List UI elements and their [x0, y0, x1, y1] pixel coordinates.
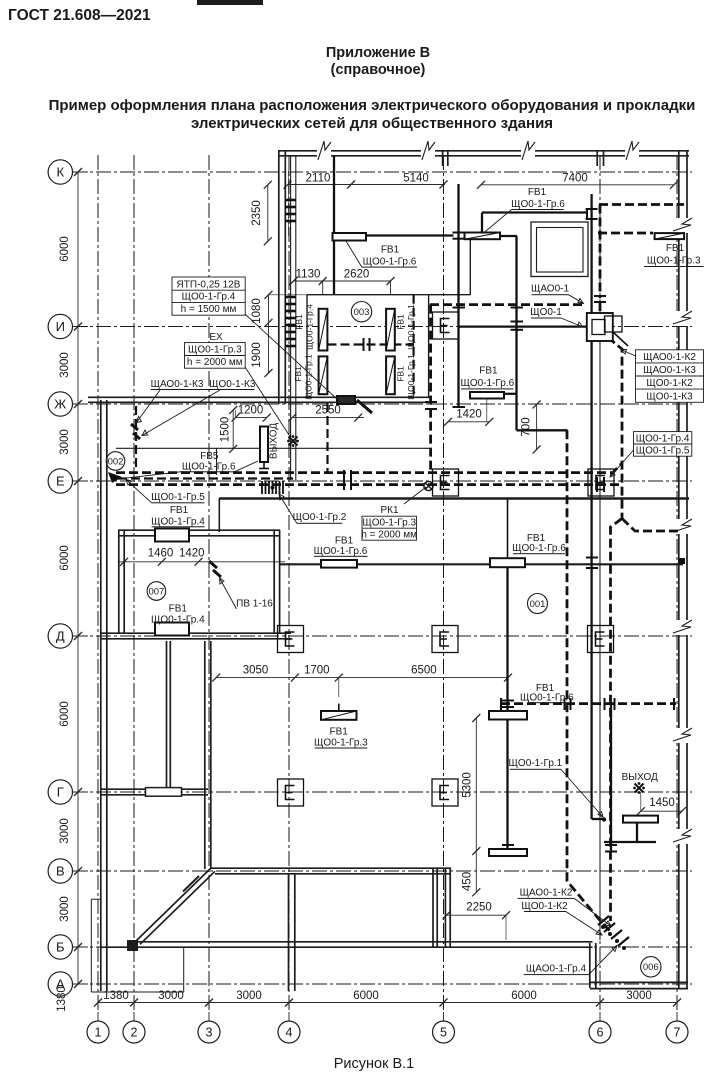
column Д/5 [432, 626, 458, 653]
svg-text:1130: 1130 [296, 269, 321, 281]
ЩО0-1 switchboard cluster [587, 313, 628, 346]
leader ЩО0-1 [561, 318, 583, 327]
bottom dimension line [98, 1002, 677, 1004]
svg-text:1080: 1080 [251, 298, 263, 324]
upper-left vertical wall (double) [278, 150, 280, 404]
svg-text:002: 002 [108, 456, 124, 467]
svg-text:Б: Б [56, 940, 65, 955]
svg-text:FB1: FB1 [396, 366, 406, 382]
leader ЩАО0-1-К3 [137, 390, 161, 423]
svg-text:3050: 3050 [243, 665, 269, 677]
leader FB1 left [346, 241, 362, 267]
svg-text:Пример оформления плана распол: Пример оформления плана расположения эле… [49, 97, 696, 114]
dim 2350 vertical [267, 185, 269, 242]
svg-text:ЯТП-0,25 12В: ЯТП-0,25 12В [177, 279, 241, 290]
bus vertical x=334 [333, 156, 335, 294]
break symbols on top wall [317, 141, 693, 844]
dashed x=567 with diagonal to corner [567, 430, 612, 933]
svg-text:1420: 1420 [179, 548, 205, 560]
room 003 walls [307, 294, 470, 296]
leader FB1 top [485, 210, 512, 233]
leader К2 box [621, 350, 636, 357]
luminaire B2 [465, 233, 501, 240]
svg-text:1500: 1500 [220, 417, 232, 443]
svg-text:001: 001 [530, 599, 546, 610]
axis col 6 [599, 155, 601, 1012]
stair shaft wall a [166, 641, 168, 792]
luminaire B6 [470, 392, 504, 399]
bus y=326.6 [458, 325, 588, 327]
svg-text:ЩО0-1-Гр.1: ЩО0-1-Гр.1 [406, 354, 416, 400]
svg-text:ЩО0-1-Гр.1: ЩО0-1-Гр.1 [303, 354, 313, 400]
svg-text:ГОСТ 21.608—2021: ГОСТ 21.608—2021 [8, 7, 151, 24]
leader ЩО0-1-Гр.1 [561, 770, 603, 818]
svg-text:6: 6 [597, 1026, 604, 1040]
svg-text:700: 700 [521, 417, 533, 436]
room 007 right wall [273, 530, 275, 633]
svg-text:ЩАО0-1: ЩАО0-1 [531, 284, 569, 295]
door rect D3 (dark) [337, 396, 355, 404]
axis row И [72, 326, 692, 328]
svg-text:6000: 6000 [59, 701, 71, 727]
leader ЩАО0-1 [569, 295, 584, 304]
svg-text:6000: 6000 [59, 236, 71, 262]
boxed labels К2/К3 [636, 350, 704, 403]
bus horizontal y=236.5 [334, 234, 454, 236]
leader ЩАО0-1-К2 bottom [575, 899, 612, 926]
svg-text:И: И [56, 319, 65, 334]
svg-text:ЩАО0-1-Гр.4: ЩАО0-1-Гр.4 [526, 964, 587, 975]
left exterior wall (double) [100, 400, 102, 991]
svg-text:6000: 6000 [59, 545, 71, 571]
leader ЕХ box [245, 367, 291, 438]
svg-text:ЩО0-1-Гр.4: ЩО0-1-Гр.4 [151, 614, 205, 625]
room 007 top wall [118, 529, 280, 531]
svg-text:h = 2000 мм: h = 2000 мм [361, 530, 417, 541]
corner junction cluster bottom-right [598, 916, 629, 946]
axis row Е [72, 480, 692, 482]
svg-text:FB1: FB1 [479, 366, 498, 377]
bus x=515 [515, 236, 517, 430]
svg-text:К: К [57, 165, 65, 180]
interior line y=566 [280, 563, 683, 565]
bus x=458 [457, 184, 459, 407]
svg-text:7400: 7400 [562, 173, 588, 185]
svg-text:электрических сетей для общест: электрических сетей для общественного зд… [191, 115, 553, 132]
svg-text:ЩО0-1-Гр.5: ЩО0-1-Гр.5 [636, 446, 690, 457]
svg-text:ЩО0-1-Гр.5: ЩО0-1-Гр.5 [151, 492, 205, 503]
svg-text:FB1: FB1 [335, 536, 354, 547]
svg-text:1420: 1420 [456, 409, 482, 421]
axis col 2 [133, 155, 135, 1012]
dim 1500 vertical [232, 410, 234, 449]
column Г/5 [432, 779, 458, 806]
bus x=591.6 [590, 194, 592, 330]
svg-text:1200: 1200 [238, 405, 264, 417]
column Д/4 [278, 626, 304, 653]
svg-text:FB1: FB1 [527, 533, 546, 544]
group line y=213 [482, 211, 587, 213]
leader ПВ 1-16 [220, 578, 237, 609]
svg-text:ЩО0-1-Гр.3: ЩО0-1-Гр.3 [647, 256, 701, 267]
svg-text:ЩО0-1-К2: ЩО0-1-К2 [646, 378, 693, 389]
svg-text:ЩО0-1-К3: ЩО0-1-К3 [646, 391, 693, 402]
svg-text:FB1: FB1 [528, 187, 547, 198]
corner column block [127, 940, 138, 951]
svg-text:5: 5 [440, 1026, 447, 1040]
corridor entry arrow [108, 472, 122, 483]
svg-text:006: 006 [643, 962, 659, 973]
svg-text:2350: 2350 [251, 200, 263, 226]
vertical x=470 [469, 240, 471, 296]
svg-text:2110: 2110 [306, 173, 331, 185]
svg-text:ЩО0-1-Гр.6: ЩО0-1-Гр.6 [520, 693, 574, 704]
svg-text:(справочное): (справочное) [331, 62, 426, 78]
svg-text:1700: 1700 [304, 665, 330, 677]
svg-text:3000: 3000 [59, 429, 71, 455]
svg-text:FB1: FB1 [169, 603, 188, 614]
svg-text:1460: 1460 [148, 548, 174, 560]
luminaire B9 [623, 816, 658, 823]
left axis circles [48, 160, 72, 996]
svg-text:ЕХ: ЕХ [209, 332, 223, 343]
boxed labels Гр.4/Гр.5 [634, 432, 692, 457]
column Е/6 [588, 469, 614, 496]
svg-text:Приложение В: Приложение В [326, 45, 430, 61]
svg-text:ЩО0-1-Гр.6: ЩО0-1-Гр.6 [512, 543, 566, 554]
bus x=508 room001 [507, 499, 509, 565]
dashed x=430.6 [429, 305, 432, 474]
svg-text:ЩО0-1-Гр.4: ЩО0-1-Гр.4 [636, 433, 690, 444]
axis col 5 [443, 155, 445, 1012]
axis row В [72, 870, 692, 872]
axis row К [72, 171, 692, 173]
svg-text:6000: 6000 [511, 990, 537, 1002]
svg-text:ЩО0-1-Гр.1: ЩО0-1-Гр.1 [509, 758, 563, 769]
room 007 left wall [118, 530, 120, 633]
svg-text:FB1: FB1 [294, 314, 304, 330]
axis row Г [72, 791, 692, 793]
wall stub axis6 [596, 150, 598, 166]
room002 dashed drop x=136 [135, 406, 137, 470]
wall hatch marks top-left [285, 200, 296, 346]
luminaire B4 [321, 560, 357, 568]
svg-text:2620: 2620 [344, 269, 370, 281]
FB5 exit luminaire [260, 427, 268, 463]
svg-text:3000: 3000 [59, 896, 71, 922]
svg-text:ЩО0-1: ЩО0-1 [530, 307, 562, 318]
column Е/5 [433, 469, 459, 496]
room number circles [106, 302, 661, 978]
corridor dashed bundle [116, 471, 611, 474]
dim 1450 [641, 810, 682, 812]
wall stub axis5 [442, 150, 444, 166]
leader ЩАО0-1-Гр.4 [589, 946, 618, 975]
Г wall door thin lines [146, 788, 182, 797]
svg-text:4: 4 [286, 1026, 293, 1040]
dim 1460/1420 room007 [118, 561, 285, 563]
column И/5 [433, 312, 459, 339]
porch outline bottom-left [90, 899, 92, 992]
svg-text:5300: 5300 [462, 772, 474, 798]
svg-text:ЩО0-1-Гр.4: ЩО0-1-Гр.4 [151, 516, 205, 527]
leader ЩО0-1-Гр.5 [126, 480, 152, 503]
wall along В (double) [212, 867, 452, 869]
leader FB5 [235, 461, 259, 472]
svg-text:007: 007 [148, 586, 164, 597]
svg-text:3000: 3000 [236, 990, 262, 1002]
svg-text:FB1: FB1 [396, 314, 406, 330]
svg-text:FB1: FB1 [170, 505, 189, 516]
svg-text:ЩО0-1-Гр.6: ЩО0-1-Гр.6 [511, 199, 565, 210]
leader РК1 [404, 487, 426, 504]
bottom axis circles [87, 1021, 688, 1043]
corridor bottom wall (room001 top) [219, 497, 689, 500]
axis col 3 [208, 155, 210, 1012]
dim 5300/450 vertical [475, 718, 477, 892]
svg-text:h = 2000 мм: h = 2000 мм [187, 357, 243, 368]
svg-text:ЩО0-1-Гр.3: ЩО0-1-Гр.3 [188, 345, 242, 356]
top dimension line 7400 [481, 184, 674, 186]
bus x=611 [610, 704, 612, 853]
svg-text:ЩО0-1-Гр.6: ЩО0-1-Гр.6 [182, 462, 236, 473]
diagonal door leaf [183, 876, 199, 892]
svg-text:Д: Д [56, 629, 65, 644]
door rect D1 [155, 529, 189, 542]
right exterior wall (double) [678, 150, 680, 988]
svg-text:ПВ 1-16: ПВ 1-16 [236, 599, 273, 610]
exit light symbols [287, 435, 645, 794]
leader ЩО0-1-Гр.2 [279, 494, 297, 523]
svg-text:ВЫХОД: ВЫХОД [268, 423, 279, 459]
svg-text:FB1: FB1 [666, 243, 685, 254]
svg-text:РК1: РК1 [380, 505, 398, 516]
svg-text:ЩАО0-1-К2: ЩАО0-1-К2 [520, 888, 573, 899]
bottom-centre wall (double) [288, 874, 290, 991]
stair shaft wall b [204, 641, 206, 869]
svg-text:3: 3 [206, 1026, 213, 1040]
svg-text:2250: 2250 [466, 901, 492, 913]
riser comb on corridor [262, 481, 283, 494]
luminaire B8 [489, 849, 527, 856]
column Г/4 [278, 779, 304, 806]
wall along Ж (double) [88, 396, 429, 398]
room003 vertical luminaires V1-V4 [319, 309, 328, 351]
svg-text:В: В [56, 864, 65, 879]
svg-text:ЩО0-1-Гр.6: ЩО0-1-Гр.6 [314, 546, 368, 557]
svg-text:3000: 3000 [59, 818, 71, 844]
top black bar fragment [197, 0, 263, 5]
axis col 4 [288, 155, 290, 1012]
svg-text:ЩО0-1-Гр.2: ЩО0-1-Гр.2 [293, 512, 347, 523]
dashed group y=703.6 [501, 702, 676, 705]
bottom-right wing walls [589, 943, 591, 988]
svg-text:ЩО0-1-Гр.4: ЩО0-1-Гр.4 [304, 304, 314, 350]
switch wedges [131, 400, 372, 577]
connector tick pairs [344, 208, 685, 852]
luminaire B7 [489, 711, 527, 720]
svg-text:ЩАО0-1-К2: ЩАО0-1-К2 [643, 352, 696, 363]
short axis stubs to circles [73, 172, 678, 1021]
dim 2550 [292, 417, 364, 419]
top exterior wall (double) [278, 150, 689, 152]
svg-text:1900: 1900 [251, 342, 263, 368]
svg-text:5140: 5140 [403, 173, 429, 185]
svg-text:003: 003 [354, 307, 370, 318]
column Д/6 [588, 626, 614, 653]
skylight squares top-right [531, 222, 588, 277]
svg-text:ЩО0-1-Гр.1: ЩО0-1-Гр.1 [406, 304, 416, 350]
dashed feeder y=206.6 [599, 203, 684, 206]
svg-text:ЩО0-1-Гр.3: ЩО0-1-Гр.3 [314, 738, 368, 749]
svg-text:ЩО0-1-Гр.3: ЩО0-1-Гр.3 [362, 518, 416, 529]
svg-text:1: 1 [95, 1026, 102, 1040]
svg-text:ЩО0-1-Гр.4: ЩО0-1-Гр.4 [182, 292, 236, 303]
left dimension line [77, 172, 79, 984]
dim 1420 (upper) [448, 421, 489, 423]
svg-text:3000: 3000 [626, 990, 652, 1002]
svg-text:FB5: FB5 [200, 451, 219, 462]
axis row Б [72, 946, 692, 948]
duct lines pair x=290-296 [290, 156, 292, 480]
axis col 7 [676, 155, 678, 1012]
leader Гр45 box [610, 450, 634, 477]
bus y=430.3 [517, 429, 568, 431]
svg-text:3000: 3000 [59, 352, 71, 378]
svg-text:h = 1500 мм: h = 1500 мм [181, 304, 237, 315]
svg-text:7: 7 [674, 1026, 681, 1040]
svg-text:Е: Е [56, 474, 65, 489]
svg-text:6000: 6000 [353, 990, 379, 1002]
wall along Б (double) [134, 941, 593, 943]
circled-X symbol РК1 [424, 481, 433, 490]
dim 1080/1900 vertical [268, 295, 270, 373]
luminaire B11 [321, 711, 357, 720]
svg-text:FB1: FB1 [381, 244, 400, 255]
dim 3050/1700/6500 [216, 677, 508, 679]
svg-text:2: 2 [131, 1026, 138, 1040]
top dimension line 2110/5140 [288, 184, 446, 186]
dim 700 vertical [536, 404, 538, 449]
svg-text:ВЫХОД: ВЫХОД [622, 772, 658, 783]
axis row Д [72, 635, 692, 637]
svg-text:1450: 1450 [649, 797, 675, 809]
dashed y=304.6 [430, 303, 586, 306]
svg-text:450: 450 [462, 872, 474, 891]
dashed feeder x=600 [599, 205, 602, 299]
svg-text:FB1: FB1 [293, 366, 303, 382]
svg-text:6500: 6500 [411, 665, 437, 677]
room002 inner partition y=448 [116, 447, 259, 449]
axis col 1 [97, 155, 99, 1012]
boxed label ЯТП [172, 277, 245, 315]
dashed jog at board [600, 302, 678, 921]
luminaire B5 [490, 558, 525, 567]
svg-text:ЩАО0-1-К3: ЩАО0-1-К3 [643, 365, 696, 376]
axis5 shaft walls [432, 869, 434, 947]
dim 1130/2620 [294, 280, 391, 282]
lamp stem right [636, 822, 638, 842]
svg-text:ЩО0-1-Гр.6: ЩО0-1-Гр.6 [363, 256, 417, 267]
luminaire B1 [333, 233, 367, 241]
svg-text:Г: Г [57, 785, 64, 800]
dim 1200 [236, 417, 267, 419]
axis row А [72, 983, 692, 985]
axis row Ж [72, 403, 692, 405]
wall along Д (double) [100, 632, 291, 634]
svg-text:А: А [56, 977, 65, 992]
dim 2250 [447, 914, 507, 916]
wall along Г segments with door gap [100, 788, 145, 790]
svg-text:ЩО0-1-К3: ЩО0-1-К3 [209, 379, 256, 390]
diagonal wall В-Б (double) [137, 868, 212, 941]
room003 interior dashed [328, 343, 414, 345]
door rect D2 [155, 623, 189, 636]
svg-text:ЩО0-1-Гр.6: ЩО0-1-Гр.6 [460, 378, 514, 389]
thin line x=600 Гр.1 [599, 341, 601, 940]
svg-text:FB1: FB1 [330, 727, 349, 738]
svg-text:Рисунок В.1: Рисунок В.1 [334, 1056, 414, 1072]
leader ЯТП box [245, 314, 337, 399]
svg-text:ЩО0-1-К2: ЩО0-1-К2 [521, 901, 568, 912]
svg-text:ЩАО0-1-К3: ЩАО0-1-К3 [151, 379, 204, 390]
svg-text:Ж: Ж [54, 397, 66, 412]
luminaire B3 [655, 233, 685, 239]
